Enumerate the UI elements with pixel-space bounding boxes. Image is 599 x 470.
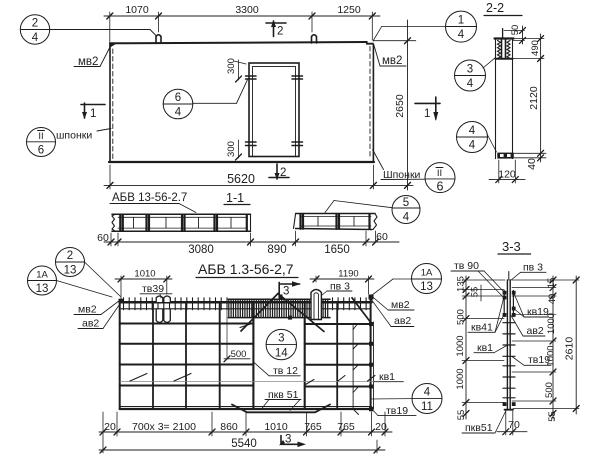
section mark 2 bottom	[269, 164, 289, 180]
label mv2 grid-left	[74, 301, 120, 316]
callout circle 3/14	[266, 329, 296, 359]
svg-text:2120: 2120	[528, 86, 540, 110]
svg-text:мв2: мв2	[382, 55, 402, 67]
section mark 1 left	[81, 103, 105, 120]
svg-text:500: 500	[456, 309, 467, 325]
label Shponki right	[373, 150, 425, 181]
grid verticals	[120, 297, 374, 409]
callout circle II/6 left	[27, 128, 56, 157]
section 1-1 right slab segment	[294, 214, 378, 230]
svg-text:1: 1	[458, 15, 464, 27]
svg-text:мв2: мв2	[391, 299, 410, 311]
svg-text:13: 13	[420, 281, 433, 293]
door anchor marks	[246, 76, 303, 146]
loop tv39	[156, 296, 170, 322]
outer dim chain 2610	[564, 276, 580, 414]
svg-text:ав2: ав2	[82, 318, 99, 330]
lifting loop left	[156, 35, 161, 43]
label kv1 3-3	[474, 342, 507, 354]
svg-text:пв 3: пв 3	[523, 261, 543, 273]
label kv19	[514, 293, 549, 318]
svg-text:кв1: кв1	[379, 371, 395, 383]
callout circle 1A/13	[28, 266, 113, 297]
svg-text:1-1: 1-1	[226, 191, 244, 205]
svg-text:1А: 1А	[421, 268, 433, 279]
label mv2 top-right	[374, 45, 406, 67]
chord cross ticks dense band	[228, 299, 330, 317]
label tv39	[140, 283, 172, 298]
callout circle 2/4	[20, 15, 156, 44]
svg-text:120: 120	[498, 169, 516, 181]
svg-text:1000: 1000	[455, 368, 466, 389]
svg-text:20: 20	[375, 421, 387, 433]
dim 300 door bottom	[226, 140, 242, 160]
protruding bar top	[502, 29, 504, 38]
embed plate mv2 top-right	[366, 41, 374, 45]
svg-text:700х 3= 2100: 700х 3= 2100	[132, 421, 196, 433]
svg-text:2: 2	[277, 26, 283, 38]
section mark 1 right	[415, 97, 440, 121]
svg-text:3: 3	[278, 333, 284, 345]
svg-text:1000: 1000	[455, 335, 466, 356]
svg-text:1190: 1190	[338, 269, 358, 280]
svg-text:3-3: 3-3	[502, 239, 521, 254]
dim 1010 top-left	[115, 269, 172, 301]
callout circle 4/11	[372, 384, 443, 414]
label mv2 top-left	[74, 48, 110, 68]
section 1-1 left slab segment	[112, 214, 251, 231]
svg-text:60: 60	[97, 232, 109, 244]
label tv90	[451, 260, 505, 297]
top chord	[120, 302, 372, 309]
svg-text:55: 55	[456, 410, 467, 421]
svg-text:1250: 1250	[337, 4, 361, 16]
svg-text:4: 4	[32, 32, 39, 44]
dim 50 (2-2)	[504, 25, 526, 44]
grid horizontals	[120, 324, 372, 387]
label tv19 grid	[371, 405, 416, 417]
dim 300 door top	[226, 58, 246, 82]
label shponki left	[56, 129, 111, 142]
embed plate mv2 top-left	[109, 43, 117, 48]
svg-text:ав2: ав2	[527, 325, 544, 337]
brace diagonal right	[352, 298, 370, 322]
section 1-1 dimension line	[97, 231, 399, 256]
svg-text:АБВ 13-56-2.7: АБВ 13-56-2.7	[112, 192, 187, 204]
title ABV 13-56-2.7	[110, 192, 196, 213]
door opening	[249, 63, 299, 157]
svg-text:135: 135	[456, 276, 467, 292]
label pv3 grid	[322, 281, 352, 296]
callout circle 1/4	[373, 11, 477, 42]
extension lines left 3-3	[462, 280, 505, 403]
label av2 3-3	[511, 316, 545, 338]
dim 500 door	[224, 304, 250, 362]
svg-text:860: 860	[220, 421, 238, 433]
svg-text:6: 6	[175, 92, 181, 104]
label av2 grid-right	[371, 299, 414, 327]
dim 5620 bottom	[104, 165, 413, 189]
svg-text:70: 70	[508, 419, 520, 431]
upper bundle bars 3-3	[504, 291, 513, 317]
right dim chain 3-3	[544, 276, 558, 422]
svg-text:1650: 1650	[324, 244, 350, 256]
svg-text:4: 4	[424, 387, 431, 399]
svg-text:55: 55	[470, 287, 481, 298]
svg-text:6: 6	[437, 180, 444, 194]
svg-text:14: 14	[275, 348, 288, 360]
dim 2650 right	[374, 20, 416, 190]
svg-text:6: 6	[38, 145, 44, 157]
section mark 2 top	[266, 20, 286, 38]
cell hatch marks	[130, 324, 375, 385]
svg-text:ав2: ав2	[394, 315, 411, 327]
svg-text:4: 4	[458, 29, 465, 41]
column outline 2-2	[495, 39, 514, 159]
svg-text:2: 2	[280, 167, 286, 179]
svg-text:300: 300	[226, 58, 237, 74]
svg-text:II: II	[38, 131, 43, 142]
svg-text:кв19: кв19	[527, 306, 549, 318]
svg-text:пкв51: пкв51	[465, 422, 493, 434]
svg-text:2-2: 2-2	[486, 1, 504, 15]
svg-text:4: 4	[403, 212, 410, 224]
svg-text:1А: 1А	[36, 270, 48, 281]
label pkv51 3-3	[462, 410, 507, 435]
svg-text:300: 300	[226, 141, 237, 157]
hidden key line right (dashed)	[369, 47, 371, 159]
svg-text:40: 40	[547, 294, 558, 305]
hidden key line left (dashed)	[112, 49, 114, 159]
svg-text:60: 60	[376, 231, 388, 243]
dim 70 3-3	[497, 411, 527, 435]
callout circle II/6 right	[425, 163, 455, 194]
label pv3 3-3	[511, 261, 547, 280]
short chain B 3-3	[480, 285, 482, 301]
label tv19 3-3	[512, 354, 551, 366]
dim chain right (490 / 2120 / 40)	[513, 34, 546, 170]
svg-text:490: 490	[530, 40, 541, 56]
svg-text:765: 765	[304, 421, 322, 433]
svg-text:тв 12: тв 12	[273, 365, 298, 377]
truss diagonal left leg	[241, 294, 278, 332]
title 2-2	[484, 1, 522, 16]
svg-text:1070: 1070	[125, 4, 149, 16]
svg-text:50: 50	[510, 25, 521, 36]
svg-text:2610: 2610	[564, 337, 576, 361]
svg-text:4: 4	[469, 140, 476, 152]
callout circle 6/4	[163, 80, 247, 119]
svg-text:4: 4	[467, 78, 474, 90]
slab keys right segment	[301, 214, 370, 229]
svg-text:1010: 1010	[134, 269, 155, 280]
svg-text:2: 2	[67, 250, 73, 262]
label pkv51 grid	[261, 389, 301, 411]
lifting loop right	[312, 35, 317, 43]
svg-text:13: 13	[36, 283, 49, 295]
svg-text:АБВ 1.3-56-2,7: АБВ 1.3-56-2,7	[198, 261, 294, 277]
chord node dots	[119, 295, 374, 412]
svg-text:тв 90: тв 90	[454, 260, 479, 272]
svg-text:15: 15	[546, 278, 557, 289]
svg-text:890: 890	[267, 244, 286, 256]
callout circle 3/4	[455, 58, 496, 91]
svg-text:3: 3	[285, 434, 291, 446]
svg-text:кв41: кв41	[471, 322, 493, 334]
svg-text:1: 1	[90, 108, 96, 120]
grid bottom dimension row 2 (5540)	[99, 438, 385, 453]
svg-text:4: 4	[469, 125, 476, 137]
svg-text:20: 20	[104, 421, 116, 433]
svg-text:13: 13	[64, 265, 77, 277]
slab keys left segment	[120, 215, 247, 231]
callout circle 5/4	[325, 196, 420, 224]
label tv12	[254, 362, 301, 377]
faint mid bar kv1 line	[120, 381, 374, 383]
svg-text:4: 4	[175, 107, 182, 119]
svg-text:3080: 3080	[188, 244, 214, 256]
svg-text:II: II	[437, 168, 442, 179]
label kv41	[468, 298, 504, 334]
panel outline	[109, 42, 374, 162]
svg-text:мв2: мв2	[78, 304, 97, 316]
bottom key block 2-2	[497, 153, 514, 159]
svg-text:3300: 3300	[235, 4, 259, 16]
section mark 3 top	[279, 281, 300, 297]
svg-text:5620: 5620	[227, 172, 255, 186]
svg-text:2: 2	[32, 18, 38, 30]
svg-text:40: 40	[526, 158, 538, 170]
svg-text:3: 3	[467, 64, 473, 76]
svg-text:1: 1	[424, 108, 430, 120]
svg-text:765: 765	[337, 421, 355, 433]
label av2 grid-left	[78, 305, 120, 330]
upper reinforced zone 2-2	[496, 40, 513, 59]
stirrup ticks 3-3	[503, 323, 515, 398]
svg-text:кв1: кв1	[477, 342, 493, 354]
svg-text:55: 55	[547, 411, 558, 422]
truss diagonal right leg	[278, 294, 324, 332]
bar top stem 3-3	[508, 272, 510, 281]
dim 120 (2-2)	[489, 160, 525, 183]
svg-text:тв39: тв39	[142, 283, 164, 295]
dim 1190	[310, 269, 374, 295]
label mv2 grid-right	[371, 296, 414, 312]
grid bottom dimension row 1	[99, 412, 392, 453]
label kv1 grid	[374, 371, 403, 383]
extension lines right 3-3	[512, 280, 579, 409]
svg-text:2650: 2650	[394, 94, 406, 118]
svg-text:500: 500	[544, 382, 555, 398]
bent bar pkv51	[232, 405, 330, 413]
title 3-3	[498, 239, 531, 254]
left dim chain 3-3	[455, 276, 481, 420]
title 1-1	[224, 191, 250, 205]
top dimension line	[104, 12, 380, 42]
svg-text:11: 11	[421, 401, 433, 413]
callout circle 4/4	[457, 122, 497, 153]
column bar 3-3	[505, 280, 514, 410]
callout circle 2/13	[56, 248, 121, 297]
thin bent bar line kv?	[353, 325, 358, 415]
svg-text:шпонки: шпонки	[56, 130, 92, 142]
title ABV 1.3-56-2,7	[196, 261, 298, 278]
chord cross ticks	[124, 298, 367, 310]
svg-text:5540: 5540	[231, 438, 257, 450]
section mark 3 bottom	[279, 434, 306, 448]
grid bottom chord	[120, 406, 372, 408]
callout circle 1A/13 right	[372, 264, 442, 296]
svg-text:3: 3	[283, 286, 289, 298]
bundle node dots 3-3	[503, 291, 516, 406]
svg-text:5: 5	[403, 197, 409, 209]
loop pv3	[311, 290, 321, 320]
svg-text:тв19: тв19	[528, 354, 550, 366]
svg-text:1010: 1010	[264, 421, 288, 433]
